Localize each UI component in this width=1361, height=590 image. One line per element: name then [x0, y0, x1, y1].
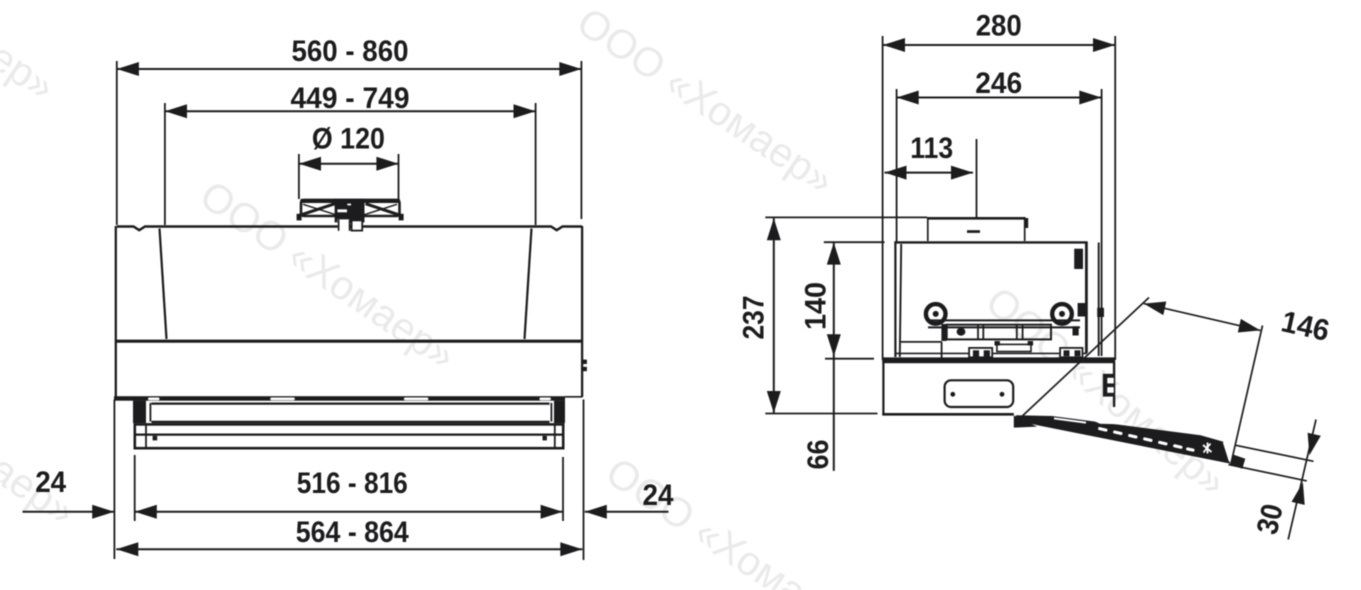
arrow 30 upper — [1308, 433, 1321, 456]
arrow 280 right — [1093, 38, 1115, 52]
drawer box bottom edge — [882, 413, 1014, 416]
carriage rail upper — [928, 319, 1080, 321]
hood inclined face left line — [160, 229, 167, 340]
name plate — [945, 380, 1014, 407]
dim 237 bottom extension — [765, 413, 877, 415]
svg-text:246: 246 — [975, 67, 1022, 100]
middle bracket lug left — [995, 341, 1000, 346]
duct damper diagonal right — [366, 204, 402, 216]
drawer right end block — [554, 401, 565, 424]
dim 560-860 extension right — [580, 61, 582, 219]
dim 280 extension right — [1114, 36, 1116, 360]
visor latch left — [153, 436, 158, 441]
dim 24-right line — [585, 511, 669, 513]
svg-text:140: 140 — [800, 282, 833, 330]
middle bracket lug right — [1028, 341, 1033, 346]
right small block — [1073, 326, 1079, 335]
rear channel inner line — [1098, 243, 1100, 357]
carriage left joint — [941, 324, 946, 341]
duct connector outer box — [301, 200, 400, 216]
svg-text:24: 24 — [35, 466, 66, 499]
body front edge outer — [894, 242, 896, 358]
arrow Ø120 right — [376, 157, 398, 171]
side handle bracket — [1103, 374, 1114, 397]
screw left — [926, 304, 946, 324]
hood bottom black band — [114, 396, 565, 401]
dim 280 line — [883, 44, 1115, 46]
duct connector bottom-right lug — [399, 214, 404, 221]
visor flap opened — [1016, 415, 1245, 469]
duct stub corner clip — [1024, 218, 1028, 228]
dim 516-816 line — [135, 511, 563, 513]
flap vent slots — [1098, 427, 1195, 452]
extension line 516 right — [562, 457, 564, 521]
duct stub side view — [927, 218, 1026, 242]
dim Ø120 extension right — [398, 154, 400, 199]
dim 30 reference bottom — [1229, 465, 1307, 481]
plate screw right — [1000, 392, 1005, 397]
visor strip outline — [135, 424, 563, 448]
dim 237 line — [773, 218, 775, 413]
arrow 449-749 left — [165, 104, 187, 118]
arrow 146 upper-left — [1144, 302, 1167, 316]
screw right — [1052, 304, 1072, 324]
arrow 24-right — [585, 505, 607, 519]
arrow 24-left — [92, 505, 114, 519]
visor strip inner line — [135, 434, 563, 436]
carriage box row — [947, 325, 1051, 340]
hood inclined face right line — [525, 229, 532, 340]
dim 146 line — [1144, 304, 1261, 331]
dim 560-860 extension left — [116, 61, 118, 225]
dim 146 extension lower-left — [1022, 298, 1149, 417]
flap hinge sliver — [1054, 417, 1086, 423]
arrow 516-816 left — [135, 505, 157, 519]
arrow 140 up — [827, 243, 841, 265]
visor latch right — [543, 436, 547, 441]
flap end cap — [1223, 441, 1235, 461]
dim 30 reference top — [1236, 445, 1314, 461]
svg-text:564 - 864: 564 - 864 — [296, 516, 409, 549]
duct stub center dash — [967, 230, 980, 233]
duct center column — [335, 199, 365, 223]
dim 140 bottom extension — [825, 358, 874, 360]
arrow 113 left — [885, 166, 907, 180]
hood cap top edge — [117, 227, 582, 231]
svg-text:280: 280 — [976, 9, 1022, 42]
visor strip right tick — [554, 424, 556, 448]
extension line 516 left — [134, 455, 136, 521]
duct damper diagonal left — [299, 204, 336, 216]
middle low bracket — [997, 344, 1031, 351]
arrow 30 lower — [1292, 482, 1305, 505]
flap white mark — [1203, 443, 1212, 454]
flap top notch — [1088, 418, 1136, 424]
RIGHT VIEW — [765, 36, 1115, 471]
body top edge — [894, 241, 1087, 243]
body front edge inner — [900, 244, 901, 357]
svg-text:Ø 120: Ø 120 — [312, 123, 385, 156]
left step under body — [901, 341, 942, 343]
carriage dot — [957, 328, 966, 336]
body rear edge — [1085, 242, 1088, 354]
arrow 560-860 right — [559, 62, 581, 76]
fan hub below duct — [338, 220, 362, 231]
drawer upper rail line — [152, 403, 550, 405]
arrow 560-860 left — [117, 62, 139, 76]
dim 560-860 line — [117, 68, 581, 70]
flap tip piece — [1230, 455, 1246, 469]
hood band top line — [116, 340, 582, 343]
drawer lower rail line — [152, 421, 550, 423]
drawer left end block — [133, 401, 146, 424]
body bottom thin line — [895, 352, 1087, 354]
arrow 237 up — [767, 218, 781, 240]
drawer box right edge — [1113, 361, 1115, 407]
arrow 449-749 right — [514, 104, 536, 118]
dim Ø120 extension left — [298, 154, 300, 199]
dim Ø120 line — [299, 163, 398, 165]
duct connector bottom-left lug — [297, 214, 302, 221]
flap body wedge — [1016, 415, 1230, 463]
dim 280 extension left — [882, 36, 884, 360]
drawer box top band — [882, 357, 1115, 363]
dim 24-left line — [23, 511, 115, 513]
arrow 564-864 right — [560, 542, 582, 556]
svg-text:113: 113 — [910, 132, 953, 165]
dim 449-749 extension left — [164, 103, 166, 225]
svg-text:449 - 749: 449 - 749 — [291, 82, 410, 115]
block beside screw2 — [1078, 303, 1087, 317]
dim 140-66 line — [833, 243, 835, 471]
svg-text:66: 66 — [802, 440, 835, 470]
arrow 140 down — [827, 334, 841, 356]
arrow 146 lower-right — [1238, 319, 1261, 333]
dim 246 extension left — [896, 89, 898, 242]
arrow Ø120 left — [299, 157, 321, 171]
svg-text:560 - 860: 560 - 860 — [292, 35, 409, 68]
hood body left edge — [115, 226, 117, 401]
svg-text:237: 237 — [738, 296, 771, 340]
lower extension line far-left — [113, 400, 115, 560]
plate screw left — [950, 392, 955, 397]
dim 140 top extension — [824, 241, 885, 243]
visor strip left tick — [145, 424, 147, 448]
dim 449-749 line — [165, 110, 536, 112]
arrow 246 left — [897, 91, 919, 105]
dim 146 extension right — [1231, 326, 1262, 463]
dim 30 line — [1288, 420, 1316, 540]
svg-text:24: 24 — [643, 479, 674, 512]
body right edge ticks — [583, 360, 587, 364]
dim 246 line — [897, 97, 1102, 99]
foot left — [969, 348, 992, 357]
LEFT VIEW — [117, 61, 582, 225]
hinge wedge — [1014, 415, 1037, 427]
drawer box left edge — [882, 357, 884, 415]
dim 246 extension right / rear channel line — [1101, 89, 1103, 356]
stub centerline for 113 — [976, 139, 978, 218]
dim 237 top extension — [765, 216, 927, 218]
dim 113 line — [885, 172, 974, 174]
arrow 246 right — [1079, 91, 1101, 105]
arrow 113 right — [951, 166, 973, 180]
foot right — [1060, 348, 1082, 357]
arrow 237 down — [767, 391, 781, 413]
arrow 516-816 right — [541, 505, 563, 519]
dim 564-864 line — [116, 548, 582, 550]
hood body right edge — [581, 226, 583, 397]
lower extension line far-right — [583, 400, 585, 561]
rear channel clamp — [1097, 308, 1104, 317]
dim 449-749 extension right — [535, 103, 537, 225]
carriage rail lower — [928, 326, 1080, 328]
arrow 564-864 left — [116, 542, 138, 556]
rear top bracket — [1074, 249, 1083, 269]
arrow 280 left — [883, 38, 905, 52]
svg-text:516 - 816: 516 - 816 — [297, 467, 408, 500]
